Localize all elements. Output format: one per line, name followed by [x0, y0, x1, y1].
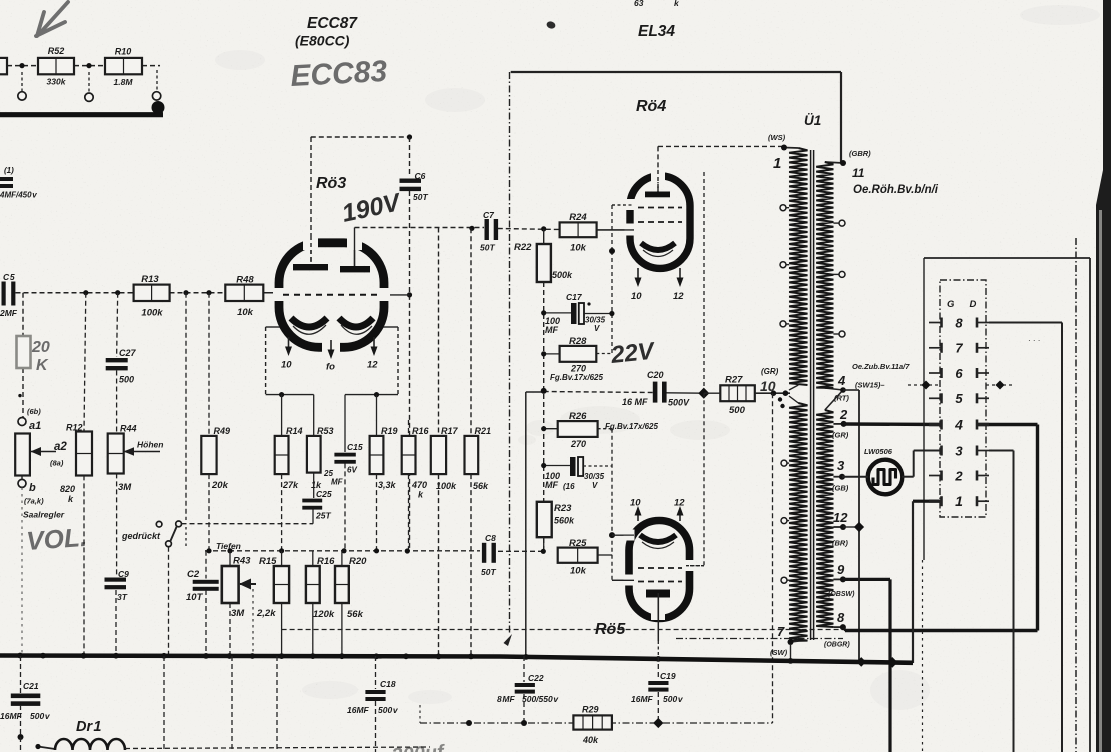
wire R26 R23 column — [544, 428, 560, 430]
resistor R49 — [208, 293, 210, 436]
svg-text:(OBGR): (OBGR) — [824, 642, 850, 649]
svg-text:330k: 330k — [47, 77, 67, 87]
resistor R48 — [225, 285, 263, 301]
svg-text:8: 8 — [837, 610, 845, 625]
primary tap rings — [780, 205, 786, 211]
wire Roe5 anode stem to bus — [657, 593, 659, 641]
wire tap 3 through lamp to pin 3 — [842, 476, 868, 478]
junction dots at tap 10 — [771, 390, 777, 396]
svg-text:· · ·: · · · — [1028, 336, 1040, 345]
wire R12 to bus — [83, 475, 85, 654]
svg-text:2,2k: 2,2k — [256, 608, 276, 619]
connector pin 2 — [929, 475, 942, 477]
svg-text:R10: R10 — [115, 47, 132, 57]
svg-text:Fg.Bv.17x/625: Fg.Bv.17x/625 — [605, 422, 658, 431]
wire switch to bus — [168, 547, 170, 654]
svg-text:MF: MF — [331, 478, 344, 487]
svg-text:R25: R25 — [569, 538, 587, 549]
svg-text:R44: R44 — [120, 424, 137, 434]
svg-text:560k: 560k — [554, 516, 575, 526]
Roe4 grid dashes — [638, 207, 682, 209]
svg-text:MF: MF — [545, 480, 558, 490]
capacitor C6 — [409, 137, 411, 177]
svg-text:16MF: 16MF — [631, 694, 654, 704]
svg-text:V: V — [594, 324, 600, 333]
wire tap 9 to output column — [843, 578, 890, 581]
svg-text:R22: R22 — [514, 242, 532, 253]
Roe3 pin fo arrow — [330, 340, 332, 353]
transformer tap stubs — [784, 147, 798, 150]
junction dot R23 bottom — [541, 549, 546, 554]
svg-text:fo: fo — [326, 362, 335, 373]
svg-text:Tiefen: Tiefen — [216, 541, 241, 551]
wire screen column to bus — [525, 392, 527, 657]
svg-text:C 5: C 5 — [3, 272, 15, 282]
svg-text:(SW): (SW) — [770, 648, 788, 657]
wire switch column from main line — [185, 293, 187, 520]
wire C5 down to volume pot — [22, 293, 24, 336]
svg-text:1.8M: 1.8M — [114, 77, 134, 87]
svg-text:7: 7 — [777, 624, 785, 639]
svg-text:C25: C25 — [316, 489, 332, 499]
wire left plate lead — [310, 137, 312, 264]
wire feedback dashed to output — [282, 629, 843, 631]
svg-text:2MF: 2MF — [0, 308, 18, 318]
svg-text:270: 270 — [570, 364, 586, 374]
svg-text:20: 20 — [31, 339, 50, 356]
svg-text:b: b — [29, 482, 36, 494]
capacitor C21 — [20, 656, 22, 693]
capacitor C22 — [523, 656, 525, 682]
svg-text:6: 6 — [955, 366, 963, 381]
svg-text:R15: R15 — [259, 556, 277, 567]
svg-text:EL34: EL34 — [638, 23, 675, 40]
svg-text:3M: 3M — [118, 482, 132, 493]
junction dot — [374, 392, 379, 397]
secondary tap rings — [839, 220, 845, 226]
transformer core lines — [810, 150, 812, 640]
tap 4 (RT) — [840, 387, 846, 393]
svg-text:a2: a2 — [54, 441, 67, 453]
handwritten 300 if bottom edge — [391, 741, 447, 752]
tap 7 (SW) — [788, 639, 794, 645]
ink blot — [546, 20, 557, 30]
wire Roe3 right grid stub — [384, 294, 410, 296]
resistor R52 — [38, 58, 74, 74]
wire C17 leads — [544, 312, 571, 314]
svg-text:50T: 50T — [480, 243, 495, 253]
svg-text:56k: 56k — [473, 481, 489, 491]
junction dot at C6 top — [407, 134, 412, 139]
svg-text:C8: C8 — [485, 533, 496, 543]
scan edge black band — [1096, 0, 1111, 752]
Roe4 cathode arc — [641, 243, 675, 250]
svg-text:8 MF: 8 MF — [497, 694, 516, 704]
resistor R20 — [341, 551, 343, 566]
ground bus thick — [0, 656, 913, 663]
svg-text:10: 10 — [630, 498, 641, 509]
svg-text:R16: R16 — [412, 426, 430, 436]
Roe3 pin 10 arrow — [288, 337, 290, 350]
resistor 20K (faded) with handwritten value — [17, 336, 31, 368]
svg-text:470: 470 — [411, 480, 427, 490]
svg-text:R43: R43 — [233, 556, 251, 567]
svg-text:C2: C2 — [187, 569, 200, 580]
svg-text:270: 270 — [570, 439, 586, 449]
svg-text:R16: R16 — [317, 556, 335, 567]
svg-text:R14: R14 — [286, 426, 303, 436]
Roe3 cathode arcs — [291, 318, 327, 327]
wire input top-left — [7, 65, 38, 67]
connector dash-dot box — [940, 280, 986, 517]
Roe4 pin 10 arrow — [637, 268, 639, 281]
transformer Ue1 primary winding upper — [789, 148, 807, 385]
svg-text:R26: R26 — [569, 411, 587, 422]
wire heater dash line — [676, 638, 843, 640]
wire Roe5 screen stub — [690, 565, 704, 567]
svg-text:R20: R20 — [349, 556, 367, 567]
junction dot — [279, 392, 284, 397]
wire C9 to bus — [115, 590, 117, 654]
capacitor C25 — [313, 473, 315, 498]
svg-text:V: V — [592, 481, 598, 490]
svg-text:R19: R19 — [381, 426, 398, 436]
tap 8 (OBGR) — [840, 624, 846, 630]
resistor R29 — [573, 715, 612, 729]
svg-text:820: 820 — [60, 484, 75, 494]
svg-text:R53: R53 — [317, 426, 334, 436]
svg-text:C21: C21 — [23, 681, 39, 691]
svg-text:50T: 50T — [481, 567, 496, 577]
svg-text:D: D — [970, 299, 977, 310]
resistor R27 — [720, 385, 755, 401]
Roe4 anode plate — [645, 192, 670, 198]
svg-text:(7a,k): (7a,k) — [24, 497, 44, 506]
svg-text:R48: R48 — [236, 275, 254, 286]
svg-text:3,3k: 3,3k — [378, 480, 397, 490]
transformer secondary winding upper — [816, 162, 833, 388]
resistor R17 100k — [438, 228, 440, 436]
resistor R53 — [313, 395, 315, 436]
resistor R13 — [134, 285, 170, 301]
wire Roe4 plate to transformer tap 1 — [657, 146, 659, 194]
svg-text:8: 8 — [955, 315, 963, 330]
resistor R26 — [558, 421, 598, 437]
svg-text:Saalregler: Saalregler — [23, 510, 65, 520]
svg-text:(1): (1) — [4, 166, 14, 175]
socket circle 1 — [18, 92, 26, 100]
connector pin 1 — [929, 500, 942, 503]
tube Roe5 envelope — [629, 521, 690, 619]
junction dot cathode Roe5 — [609, 532, 615, 538]
svg-text:12: 12 — [367, 360, 378, 371]
svg-text:11: 11 — [852, 166, 865, 180]
wire rail left drop to screen arrow — [509, 72, 511, 633]
svg-text:16MF: 16MF — [347, 705, 370, 715]
capacitor C9 — [116, 473, 118, 576]
svg-text:Dr 1: Dr 1 — [76, 719, 101, 735]
wire R28 leads — [544, 353, 560, 355]
connector pin 7 — [929, 347, 942, 349]
wire output column thick — [888, 579, 891, 752]
svg-text:16 MF: 16 MF — [622, 397, 648, 407]
resistor R24 — [560, 222, 597, 237]
terminal b — [21, 475, 23, 479]
wire riser bottom diamond — [856, 657, 866, 667]
svg-text:(8a): (8a) — [50, 459, 64, 468]
svg-text:VOL.: VOL. — [25, 522, 88, 556]
wire heater return y=723 — [420, 722, 773, 724]
svg-text:R27: R27 — [725, 375, 743, 386]
svg-text:4: 4 — [954, 416, 963, 432]
svg-text:10k: 10k — [570, 243, 587, 254]
svg-text:25T: 25T — [315, 511, 331, 521]
svg-text:500 v: 500 v — [30, 711, 51, 721]
tap 1 (WS) — [781, 145, 787, 151]
svg-text:2: 2 — [839, 407, 848, 422]
resistor R16 470k — [402, 436, 416, 474]
junction dots C17 — [541, 310, 546, 315]
connector pin 6 — [929, 372, 942, 374]
wire cathode line y=551 — [205, 550, 480, 552]
wire screen node line y=392 — [526, 391, 544, 393]
Roe3 plate leads through wall — [310, 236, 312, 264]
resistor R19 — [376, 395, 378, 436]
bus junction dots — [17, 653, 23, 659]
svg-text:(BR): (BR) — [832, 539, 848, 548]
terminal stubs to sockets — [21, 72, 23, 91]
connector pin 5 — [929, 397, 942, 399]
svg-text:500 v: 500 v — [663, 694, 684, 704]
svg-text:C18: C18 — [380, 679, 396, 689]
svg-text:(RT): (RT) — [834, 394, 849, 403]
svg-text:(GB): (GB) — [832, 484, 849, 493]
svg-text:2: 2 — [954, 468, 963, 483]
svg-text:9: 9 — [837, 562, 845, 577]
svg-text:100k: 100k — [141, 308, 163, 319]
junction dot C16 left — [541, 463, 546, 468]
capacitor C18 — [375, 656, 377, 689]
svg-text:3M: 3M — [231, 608, 245, 619]
junction dot y392 at R22 column — [541, 388, 547, 394]
svg-text:(WS): (WS) — [768, 133, 786, 142]
wire Roe5 cathode column — [611, 429, 613, 581]
svg-text:R21: R21 — [475, 426, 492, 436]
svg-text:1: 1 — [955, 493, 963, 509]
tube Roe3 envelope — [279, 243, 384, 347]
dash-dot margin line right — [1075, 238, 1077, 752]
wire pin 3 to right — [989, 450, 1014, 452]
junction dot tap12 riser — [854, 522, 864, 532]
wire C7 to R24 — [498, 229, 560, 230]
capacitor C2 — [205, 551, 207, 579]
svg-text:C7: C7 — [483, 210, 495, 220]
svg-text:ECC83: ECC83 — [290, 55, 389, 93]
svg-text:(GR): (GR) — [832, 431, 849, 440]
svg-text:6V: 6V — [347, 466, 357, 475]
connector pin 3 — [929, 450, 942, 452]
svg-text:10k: 10k — [237, 307, 254, 318]
wire R24 to Roe4 grid — [597, 229, 631, 231]
node dot between R52 and R10 — [86, 63, 91, 68]
svg-text:20k: 20k — [211, 480, 229, 491]
svg-text:500k: 500k — [552, 270, 573, 280]
wire right plate lead and coupling line to C7 — [354, 228, 356, 267]
capacitor C27 — [117, 293, 118, 357]
volume potentiometer — [15, 434, 30, 476]
svg-text:500/550 v: 500/550 v — [522, 694, 559, 704]
svg-text:Rö3: Rö3 — [316, 175, 346, 192]
switch gedrueckt — [156, 521, 162, 527]
svg-text:Oe.Zub.Bv.11a/7: Oe.Zub.Bv.11a/7 — [852, 362, 910, 371]
svg-text:63: 63 — [634, 0, 644, 8]
svg-text:4: 4 — [837, 373, 846, 388]
svg-text:10T: 10T — [186, 592, 204, 603]
tap 2 (GR) — [841, 421, 847, 427]
terminal a1 — [18, 418, 26, 426]
wiper arrow Tiefen — [240, 583, 256, 585]
connector frame outer — [924, 257, 1090, 259]
wire rail C15 R19 — [345, 394, 398, 396]
resistor R23 — [537, 502, 552, 537]
svg-text:(6b): (6b) — [27, 407, 41, 416]
svg-text:C17: C17 — [566, 292, 583, 302]
svg-text:4MF/450 v: 4MF/450 v — [0, 191, 37, 200]
wire rail right drop to tap 11 — [840, 72, 842, 163]
wire Roe4 screen stub — [612, 204, 628, 206]
svg-text:C19: C19 — [660, 671, 676, 681]
Roe5 pin 10 arrow — [637, 509, 639, 522]
wire tap 12 riser — [858, 390, 860, 662]
svg-text:10k: 10k — [570, 566, 587, 577]
wire grid stub into Roe5 — [612, 579, 630, 581]
wire C6 column down — [409, 191, 411, 295]
svg-text:R17: R17 — [441, 426, 459, 436]
svg-text:(OBSW): (OBSW) — [828, 591, 855, 598]
terminal ball — [152, 101, 165, 114]
svg-text:12: 12 — [674, 498, 685, 509]
svg-text:120k: 120k — [313, 609, 335, 620]
svg-text:C27: C27 — [119, 348, 137, 358]
wire tap 2 to connector pin 4 thick — [844, 422, 941, 426]
Roe5 anode plate — [646, 590, 670, 598]
junction diamond screen node — [698, 388, 709, 399]
wire b down to bus — [21, 488, 23, 655]
svg-text:(GR): (GR) — [761, 367, 779, 376]
junction dot R21 column on plate line — [469, 226, 474, 231]
wire pin 8 to right — [989, 322, 1062, 324]
Roe5 grid dashes — [638, 567, 682, 569]
resistor R43 tone pot Tiefen — [229, 551, 231, 566]
Roe5 cathode arc — [640, 535, 676, 542]
svg-text:500: 500 — [729, 405, 746, 416]
svg-text:30/35: 30/35 — [584, 472, 605, 481]
junction dot grid node Roe4 — [541, 226, 546, 231]
wire cathode rail R14 R53 — [266, 394, 314, 396]
svg-text:(GBR): (GBR) — [849, 149, 871, 158]
transformer secondary winding lower — [816, 410, 833, 627]
svg-text:(E80CC): (E80CC) — [295, 33, 350, 49]
svg-text:(SW15)–: (SW15)– — [855, 381, 885, 390]
svg-text:16MF: 16MF — [0, 711, 23, 721]
capacitor C15 — [334, 453, 355, 457]
svg-text:ECC87: ECC87 — [307, 15, 358, 32]
svg-text:C15: C15 — [347, 442, 363, 452]
svg-text:500: 500 — [119, 375, 134, 385]
resistor R21 56k — [470, 228, 472, 436]
svg-text:C6: C6 — [415, 171, 426, 181]
svg-text:1: 1 — [773, 155, 781, 172]
resistor R28 — [560, 346, 597, 362]
Roe4 pin 12 arrow — [679, 268, 681, 281]
tap 11 (GBR) — [840, 160, 846, 166]
junction dot below C21 — [18, 734, 24, 740]
Roe3 cathode side wires — [266, 326, 280, 328]
svg-text:Ü1: Ü1 — [804, 113, 821, 128]
svg-text:R29: R29 — [582, 705, 599, 715]
svg-text:500 v: 500 v — [378, 705, 399, 715]
diamond dots SW15 row — [921, 380, 930, 389]
svg-text:R28: R28 — [569, 336, 587, 347]
wire cathode stub into Roe5 — [612, 534, 630, 536]
svg-text:R12: R12 — [66, 423, 83, 433]
wire choke to right — [125, 747, 430, 749]
resistor R14 — [281, 395, 283, 436]
svg-text:3T: 3T — [117, 592, 128, 602]
resistor R44 tone pot Hoehen — [116, 371, 118, 434]
svg-text:3: 3 — [837, 458, 845, 473]
connector pin 4 — [929, 423, 942, 426]
svg-text:10: 10 — [631, 291, 642, 302]
tube Roe4 envelope — [630, 176, 690, 269]
wire B+ rail top — [511, 71, 841, 73]
svg-text:27k: 27k — [282, 480, 299, 490]
wire tap10 column down to C19 line — [772, 393, 774, 723]
svg-text:500V: 500V — [668, 398, 690, 408]
resistor R16 120k — [312, 551, 314, 566]
svg-text:R49: R49 — [214, 426, 231, 436]
svg-text:12: 12 — [673, 291, 684, 302]
wire Roe4 cathode column — [611, 205, 613, 251]
svg-text:C20: C20 — [647, 370, 664, 380]
resistor R12 — [84, 293, 86, 432]
svg-text:Höhen: Höhen — [137, 440, 163, 450]
wire R22 column down — [543, 282, 545, 551]
wire switch to C25 bottom — [182, 523, 314, 525]
transformer primary winding lower — [789, 403, 807, 641]
tap 3 (GB) — [839, 474, 845, 480]
svg-text:56k: 56k — [347, 609, 364, 620]
capacitor C16 electrolytic — [570, 457, 576, 476]
resistor R15 — [281, 551, 283, 566]
tap 9 (OBSW) — [840, 576, 846, 582]
junction dots on main line — [83, 290, 88, 295]
svg-text:Rö5: Rö5 — [595, 621, 626, 638]
junction dots on cathode line — [206, 548, 211, 553]
svg-text:K: K — [36, 357, 49, 374]
svg-text:gedrückt: gedrückt — [121, 531, 161, 541]
svg-text:G: G — [947, 299, 955, 310]
svg-text:22V: 22V — [609, 337, 657, 369]
Roe3 pin 12 arrow — [373, 337, 375, 350]
svg-text:50T: 50T — [413, 192, 428, 202]
svg-text:10: 10 — [281, 360, 292, 371]
svg-text:MF: MF — [545, 325, 558, 335]
svg-text:Rö4: Rö4 — [636, 98, 666, 115]
socket circle 2 — [85, 93, 93, 101]
junction dot R26 left — [541, 426, 546, 431]
svg-text:3: 3 — [955, 443, 963, 458]
